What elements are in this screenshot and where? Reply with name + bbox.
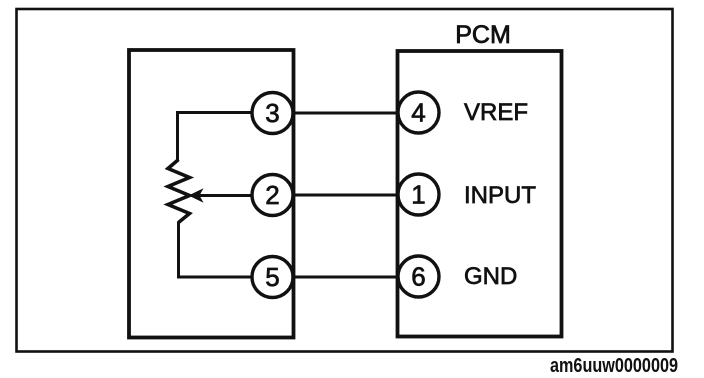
potentiometer R (resistive element) [168, 160, 190, 223]
wire from potentiometer bottom to pin 5 [179, 222, 254, 278]
sensor box (potentiometer housing) [129, 50, 294, 338]
svg-text:3: 3 [265, 98, 279, 128]
potentiometer wiper arrow (to pin 2) [189, 188, 254, 203]
wire from pin 3 to potentiometer top [178, 113, 254, 162]
pin 5 (sensor GND pin) [252, 257, 293, 298]
svg-text:PCM: PCM [455, 21, 511, 49]
pin 3 (sensor VREF pin) [252, 93, 293, 134]
pin 2 (sensor wiper pin) [252, 175, 293, 216]
wire GND net (pin 5 to pin 6) [291, 276, 400, 279]
svg-text:4: 4 [411, 98, 425, 128]
svg-text:INPUT: INPUT [464, 182, 536, 209]
svg-text:6: 6 [411, 262, 425, 292]
pin 1 (PCM INPUT pin) [398, 174, 439, 215]
svg-text:5: 5 [265, 262, 279, 292]
svg-text:VREF: VREF [464, 99, 528, 126]
wire VREF net (pin 3 to pin 4) [291, 112, 400, 115]
pin 4 (PCM VREF pin) [398, 92, 439, 133]
PCM box U1 [398, 51, 562, 337]
pin 6 (PCM GND pin) [398, 256, 439, 297]
svg-text:am6uuw0000009: am6uuw0000009 [550, 355, 678, 377]
svg-text:1: 1 [411, 180, 425, 210]
wire INPUT net (pin 2 to pin 1) [291, 194, 400, 197]
svg-text:2: 2 [265, 180, 279, 210]
svg-text:GND: GND [464, 263, 517, 290]
